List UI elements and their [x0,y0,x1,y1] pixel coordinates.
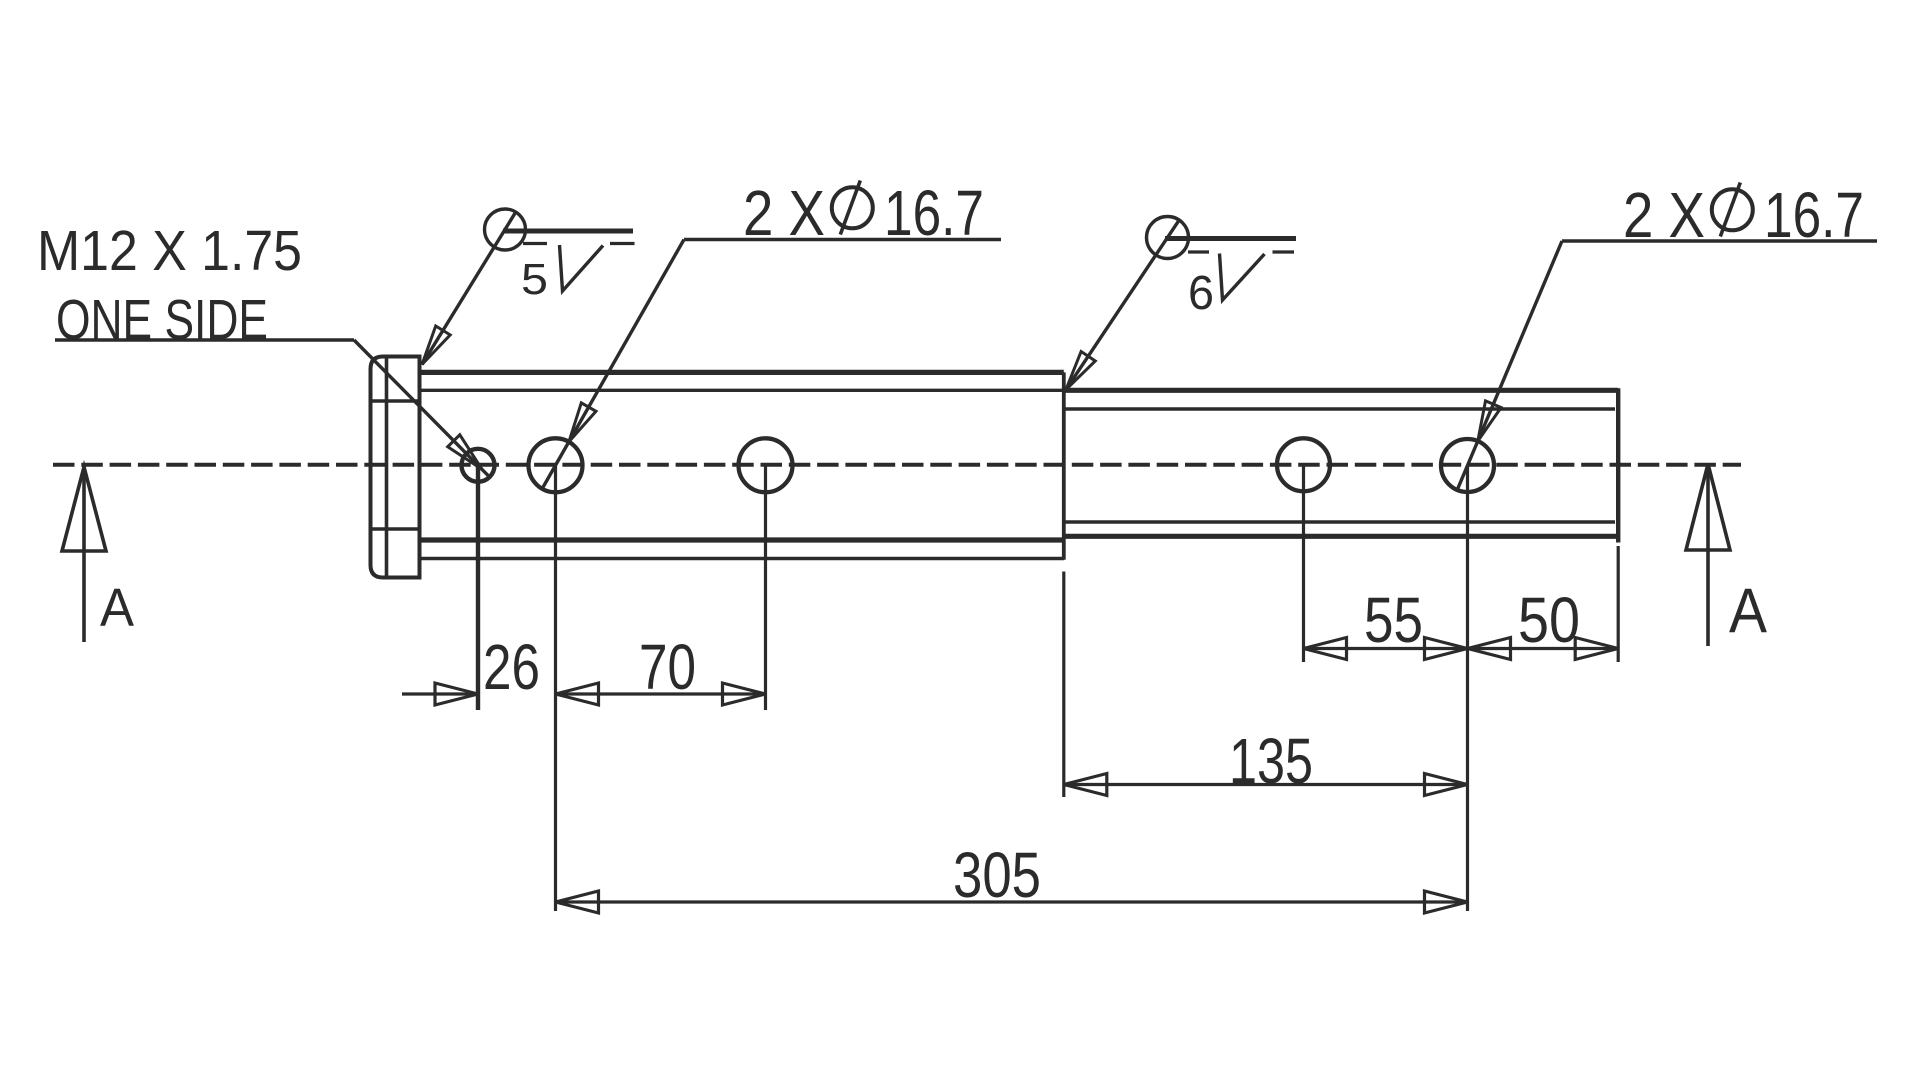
svg-text:2 X: 2 X [743,177,825,249]
svg-text:6: 6 [1188,267,1214,320]
svg-text:305: 305 [953,839,1041,911]
svg-text:135: 135 [1229,725,1313,797]
svg-text:55: 55 [1364,584,1423,656]
svg-text:16.7: 16.7 [884,177,984,249]
svg-text:2 X: 2 X [1623,179,1705,251]
svg-text:A: A [100,578,134,638]
svg-text:ONE SIDE: ONE SIDE [56,288,268,352]
svg-text:50: 50 [1518,584,1580,656]
svg-text:A: A [1729,576,1767,646]
svg-text:26: 26 [483,631,540,703]
svg-text:5: 5 [521,255,548,304]
svg-text:M12 X 1.75: M12 X 1.75 [37,219,302,283]
svg-text:70: 70 [639,631,696,703]
svg-text:16.7: 16.7 [1764,179,1864,251]
